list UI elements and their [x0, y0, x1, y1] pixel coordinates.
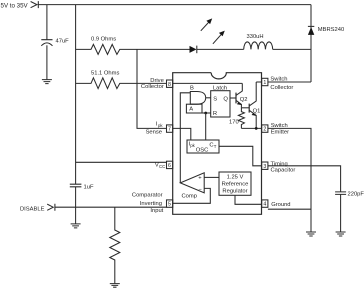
svg-text:Timing: Timing	[271, 161, 288, 167]
svg-text:OSC: OSC	[196, 148, 209, 154]
and gate U1A	[190, 92, 205, 105]
LED light arrow 2	[213, 34, 222, 44]
LED D1	[190, 46, 197, 53]
wire 1uF to ground	[75, 187, 77, 224]
svg-text:Q1: Q1	[253, 108, 261, 114]
transistor Q1	[248, 104, 250, 113]
svg-text:S: S	[213, 96, 217, 102]
wire R junction to OSC	[205, 113, 207, 140]
ground G4	[306, 232, 316, 236]
resistor R4 pulldown	[110, 207, 120, 283]
reference regulator U1D box	[219, 172, 251, 195]
wire LED feed	[137, 48, 190, 50]
svg-text:1.25 V: 1.25 V	[227, 175, 244, 181]
wire LED to inductor	[197, 48, 244, 50]
wire Q1 collector to pin 1	[256, 81, 262, 83]
wire reference to pin 4	[235, 195, 262, 204]
wire right vertical top	[310, 5, 312, 82]
svg-text:5: 5	[168, 202, 171, 208]
wire and gate to latch S	[206, 97, 211, 99]
node VIN input arrow	[31, 1, 39, 8]
svg-text:+: +	[198, 176, 202, 182]
svg-text:Inverting: Inverting	[140, 201, 162, 207]
svg-text:Comp: Comp	[182, 194, 197, 200]
wire 47uF to ground	[46, 45, 48, 79]
svg-text:Capacitor: Capacitor	[271, 167, 296, 173]
svg-text:T: T	[214, 144, 217, 149]
svg-text:Collector: Collector	[141, 84, 164, 90]
ground G5	[336, 232, 346, 236]
svg-text:51.1 Ohms: 51.1 Ohms	[91, 71, 119, 77]
svg-text:2: 2	[263, 127, 266, 133]
node DISABLE arrow	[47, 204, 55, 211]
wire OSC to pin 3	[219, 146, 262, 166]
wire comparator plus to reference	[204, 176, 219, 178]
ground G1	[42, 80, 52, 84]
wire top rail	[38, 4, 311, 6]
wire comparator minus to pin 5	[173, 188, 211, 203]
wire Q2 emitter to Q1 base	[241, 107, 249, 109]
comparator U1C	[180, 173, 204, 193]
node junction dot R input	[204, 112, 207, 115]
oscillator OSC box	[187, 140, 219, 153]
latch U1B box	[211, 91, 230, 117]
wire pin 2 to ground rail	[268, 128, 311, 231]
pin 3 box	[262, 162, 268, 169]
svg-text:3: 3	[263, 164, 266, 170]
LED light arrow 1	[201, 21, 210, 30]
svg-text:Latch: Latch	[213, 86, 227, 92]
IC U1 outline	[173, 73, 262, 215]
svg-text:Emitter: Emitter	[271, 130, 289, 136]
svg-text:Collector: Collector	[270, 85, 293, 91]
svg-text:330uH: 330uH	[247, 34, 264, 40]
wire and gate B input from comparator	[180, 93, 190, 183]
wire A box to latch R	[202, 112, 211, 114]
svg-text:Q: Q	[223, 96, 228, 102]
capacitor C2 1uF	[70, 184, 82, 187]
capacitor C3 220pF	[335, 192, 346, 195]
svg-text:Input: Input	[150, 208, 163, 214]
wire Ipk sense from R1 to pin 7	[137, 49, 166, 128]
svg-text:Comparator: Comparator	[132, 193, 163, 199]
svg-text:7: 7	[168, 127, 171, 133]
svg-text:4: 4	[263, 202, 266, 208]
ground G3	[110, 284, 120, 288]
pin 4 box	[262, 200, 268, 207]
wire pin 4 to ground rail	[268, 208, 311, 210]
svg-text:220pF: 220pF	[348, 192, 364, 198]
ground G2	[71, 224, 81, 228]
pin 8 box	[167, 80, 173, 87]
capacitor C1 47uF	[41, 40, 52, 46]
wire 220pF to ground	[340, 194, 342, 231]
pin 1 box	[262, 78, 268, 85]
svg-text:B: B	[190, 86, 194, 92]
pin 6 box	[167, 161, 173, 168]
transistor Q2	[235, 93, 237, 104]
svg-text:MBRS240: MBRS240	[318, 27, 344, 33]
svg-text:Sense: Sense	[146, 130, 162, 136]
wire pin 1 to switch node	[268, 81, 311, 83]
diode D2 MBRS240	[308, 25, 314, 27]
svg-text:170: 170	[229, 119, 239, 125]
svg-text:6: 6	[168, 163, 171, 169]
svg-text:Q2: Q2	[240, 97, 248, 103]
pin 5 box	[167, 200, 173, 207]
wire inductor to switch node	[273, 48, 311, 50]
svg-text:Regulator: Regulator	[222, 189, 247, 195]
wire pin 3 to timing capacitor	[268, 166, 341, 192]
svg-text:CC: CC	[159, 164, 165, 169]
wire VIN bus	[75, 5, 77, 185]
svg-text:R: R	[213, 111, 217, 117]
wire VCC branch to pin 6	[76, 161, 167, 163]
wire pin 7 to OSC	[173, 128, 191, 140]
wire latch Q to Q2 base	[230, 97, 236, 99]
svg-text:Reference: Reference	[222, 182, 249, 188]
svg-text:A: A	[189, 107, 193, 113]
node junction dot Q1 emitter	[255, 127, 258, 130]
node A box	[186, 104, 202, 113]
svg-text:1: 1	[263, 80, 266, 86]
svg-text:47uF: 47uF	[56, 38, 70, 44]
svg-text:DISABLE: DISABLE	[20, 207, 45, 213]
wire internal pin 2 rail	[241, 127, 261, 129]
svg-text:1uF: 1uF	[84, 184, 94, 190]
wire DISABLE to pin 5	[55, 206, 167, 208]
svg-text:8: 8	[168, 82, 171, 88]
pin 7 box	[167, 125, 173, 132]
wire 47uF branch	[46, 5, 48, 40]
svg-text:5V to 35V: 5V to 35V	[1, 2, 29, 9]
pin 2 box	[262, 125, 268, 132]
wire pin 8 to Q2 collector	[173, 82, 243, 84]
svg-text:Ground: Ground	[271, 202, 290, 208]
svg-text:0.9 Ohms: 0.9 Ohms	[91, 37, 116, 43]
